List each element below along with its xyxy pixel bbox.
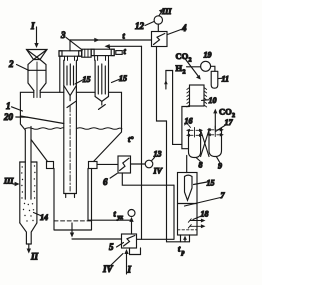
svg-text:17: 17 bbox=[225, 118, 234, 127]
svg-text:t: t bbox=[114, 210, 117, 219]
liquid level (wavy) bbox=[26, 128, 64, 130]
flange legs bbox=[65, 56, 109, 61]
spray nozzles 16 bbox=[186, 128, 203, 138]
svg-text:t: t bbox=[123, 32, 126, 41]
outlet arrow down from shell bbox=[71, 223, 73, 233]
wire H2 to compressor bbox=[187, 66, 201, 68]
wire: down to absorber 8 (left) bbox=[173, 71, 182, 145]
reactor 10 (methanator, hatched walls) bbox=[187, 85, 207, 107]
svg-text:t°: t° bbox=[128, 135, 134, 144]
svg-text:IV: IV bbox=[153, 167, 163, 176]
arrow up into t_ух bbox=[129, 217, 133, 234]
wire circle12 to unit 4 bbox=[157, 24, 159, 31]
node III (outlet arrow) bbox=[159, 7, 172, 16]
wire: recycle drop to reactor 7 bbox=[166, 121, 168, 242]
wire: shell outlet to hx5 bbox=[72, 238, 122, 240]
svg-text:15: 15 bbox=[207, 179, 215, 188]
grate in reactor 7 bbox=[178, 203, 198, 205]
svg-text:5: 5 bbox=[109, 242, 114, 252]
heat exchanger 5 bbox=[122, 234, 137, 248]
svg-text:12: 12 bbox=[135, 21, 145, 31]
feeder 2 (hopper with star feeder) bbox=[27, 50, 48, 98]
wire absorber 8 bottom to reactor 7 bbox=[186, 156, 188, 173]
heat exchanger 6 bbox=[118, 156, 131, 173]
wire compressor to tank 11 bbox=[211, 66, 215, 71]
wire: hx5 to reactor 7 header bbox=[137, 238, 175, 240]
wire: vessel block down & right to sensor stem bbox=[88, 169, 132, 221]
svg-text:p: p bbox=[181, 250, 185, 256]
compressor 19 bbox=[201, 61, 211, 71]
granule dots in 14 bbox=[21, 165, 36, 221]
wire: hx6 to sensor 13 bbox=[131, 163, 146, 165]
reactor 7 legs & feed bbox=[167, 235, 190, 242]
separator insert 15 (right tube) bbox=[98, 64, 105, 94]
wire from left flange end down to vessel top bbox=[59, 56, 61, 92]
svg-text:19: 19 bbox=[204, 51, 212, 60]
svg-text:6: 6 bbox=[103, 177, 108, 187]
vessel 1 (main apparatus shell) bbox=[20, 92, 121, 162]
svg-text:7: 7 bbox=[221, 191, 226, 200]
svg-text:3: 3 bbox=[60, 30, 66, 40]
regenerator 14 bbox=[20, 162, 37, 244]
funnel blocks (supports) bbox=[47, 162, 54, 169]
return gas line t (from 4 back to flange) bbox=[105, 44, 142, 49]
blower 12 bbox=[154, 16, 162, 24]
svg-text:9: 9 bbox=[218, 162, 222, 171]
recycle stub with up arrow bbox=[164, 71, 173, 90]
svg-text:20: 20 bbox=[3, 112, 14, 122]
wire: hx6 drain down and right bbox=[122, 173, 174, 185]
svg-text:t: t bbox=[124, 47, 127, 56]
svg-text:2: 2 bbox=[183, 70, 186, 76]
svg-text:IV: IV bbox=[102, 264, 114, 274]
separator insert 15 (left tube) bbox=[64, 64, 77, 108]
spray nozzles 17 bbox=[207, 126, 224, 137]
svg-text:1: 1 bbox=[6, 101, 11, 111]
svg-text:H: H bbox=[176, 63, 183, 73]
node IV arrow into hx5 bbox=[102, 254, 123, 275]
svg-text:14: 14 bbox=[40, 213, 48, 222]
node II (product out) bbox=[27, 244, 39, 262]
svg-text:II: II bbox=[30, 252, 39, 262]
lower shell of vessel 1 bbox=[54, 169, 92, 231]
svg-text:III: III bbox=[161, 7, 172, 16]
sensor 13 bbox=[145, 160, 153, 168]
wire: unit4 bottom drop bbox=[157, 47, 167, 122]
label CO2 (top feed) bbox=[176, 51, 192, 64]
wire CO2 diagonal into reactor 10 bbox=[185, 58, 201, 80]
svg-text:CO: CO bbox=[176, 51, 189, 61]
label CO2 (recovered, with up arrow) bbox=[213, 107, 235, 131]
dashed bed level bbox=[54, 220, 92, 222]
node I arrow into hx5 bbox=[124, 249, 131, 275]
gas distributor 3 (flanges on top) bbox=[59, 49, 122, 57]
draft tube (central) bbox=[64, 60, 77, 197]
gas line t (to heat exchanger 4) bbox=[70, 38, 152, 51]
heat exchanger 4 bbox=[152, 32, 168, 47]
label H2 bbox=[176, 63, 186, 76]
insert 15 (in reactor 7) bbox=[185, 175, 193, 200]
gas sensor t_ух bbox=[128, 210, 135, 217]
svg-text:I: I bbox=[127, 265, 132, 275]
tank 11 bbox=[211, 71, 218, 88]
wire: reactor 10 outlet to absorber 8 bbox=[182, 107, 190, 149]
absorber 8 bbox=[189, 130, 201, 158]
absorber 9 bbox=[209, 129, 222, 157]
sloping plate 20 bbox=[20, 116, 63, 124]
nozzles 18 (arrows out right) bbox=[188, 219, 205, 229]
svg-text:I: I bbox=[30, 21, 35, 31]
dotted level in reactor 7 bbox=[178, 229, 198, 231]
svg-text:CO: CO bbox=[219, 107, 232, 117]
wire: hx5 outlet loop bbox=[130, 248, 141, 255]
wire: return line drop (t) bbox=[141, 46, 143, 239]
svg-text:4: 4 bbox=[181, 23, 187, 33]
svg-text:10: 10 bbox=[209, 96, 217, 105]
feed tube 2 (right) bbox=[95, 60, 108, 109]
wire: shell block to hx6 bbox=[97, 163, 118, 165]
node I (feed arrow top-left) bbox=[30, 21, 39, 48]
wire: riser to bottom header bbox=[173, 185, 175, 239]
reactor 7 bbox=[178, 173, 198, 236]
crossover wires between 8 and 9 bbox=[201, 130, 209, 157]
svg-text:2: 2 bbox=[189, 58, 192, 64]
svg-text:2: 2 bbox=[8, 59, 14, 69]
svg-text:8: 8 bbox=[199, 161, 203, 170]
svg-text:11: 11 bbox=[222, 75, 230, 84]
svg-text:18: 18 bbox=[201, 210, 209, 219]
node III (steam into 14) bbox=[3, 177, 20, 187]
downcomer wire to regenerator bbox=[24, 130, 26, 162]
